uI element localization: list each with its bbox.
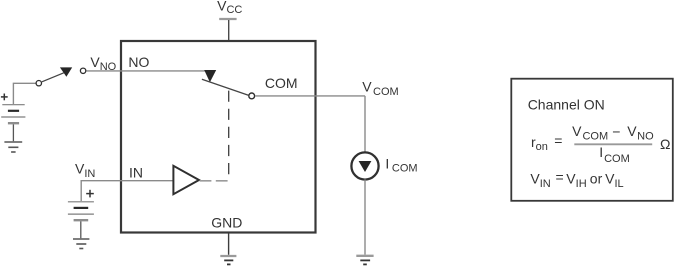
svg-text:or: or	[590, 171, 603, 187]
wire VIN net	[81, 181, 173, 201]
wire NO net	[87, 70, 206, 72]
svg-text:VIH: VIH	[566, 171, 586, 190]
ground (GND pin)	[220, 255, 236, 257]
battery B2 plus sign	[86, 190, 94, 198]
battery B2 plates	[68, 201, 94, 203]
switch S1 throw terminal	[80, 68, 85, 73]
internal switch arm	[202, 79, 249, 95]
wire VCC to box	[228, 20, 230, 40]
IC body box	[121, 41, 316, 233]
svg-text:Ω: Ω	[660, 136, 670, 152]
wire B2 to ground	[80, 221, 82, 238]
svg-text:GND: GND	[211, 215, 242, 231]
current source ICOM circle	[351, 152, 378, 179]
VCC supply bar	[219, 18, 236, 20]
svg-text:Channel ON: Channel ON	[528, 96, 605, 112]
svg-text:VNO: VNO	[627, 123, 654, 143]
wire current source to ground	[364, 179, 366, 254]
svg-text:VNO: VNO	[90, 54, 116, 73]
svg-text:IN: IN	[129, 165, 143, 181]
battery B1 plus sign	[1, 94, 8, 101]
switch S1 arm	[42, 73, 64, 82]
dashed control line horizontal	[200, 180, 229, 182]
svg-text:COM: COM	[265, 75, 298, 91]
svg-text:ICOM: ICOM	[599, 144, 629, 165]
buffer U1	[173, 166, 199, 194]
current source arrow	[359, 161, 372, 172]
wire B1 to ground	[12, 124, 14, 141]
svg-text:VIN: VIN	[75, 160, 95, 179]
svg-text:NO: NO	[128, 54, 149, 70]
ground (B1)	[4, 142, 22, 152]
svg-text:ron: ron	[531, 134, 548, 153]
internal switch arrowhead	[204, 70, 216, 82]
svg-text:VIL: VIL	[605, 171, 624, 190]
svg-text:VCOM: VCOM	[362, 78, 398, 98]
switch S1 arrowhead	[60, 67, 72, 76]
battery B1 plates	[2, 104, 24, 106]
svg-text:ICOM: ICOM	[385, 155, 417, 174]
wire COM net	[255, 95, 365, 97]
svg-text:=: =	[556, 169, 564, 185]
battery B1 wire to switch	[13, 83, 35, 104]
internal switch COM terminal	[249, 93, 255, 99]
ground (B2)	[73, 239, 89, 249]
ground (ICOM)	[356, 255, 373, 257]
svg-text:=: =	[554, 132, 562, 148]
switch S1 pole terminal	[36, 81, 41, 86]
svg-text:−: −	[612, 124, 620, 140]
equation fraction bar	[574, 143, 652, 145]
wire GND to ground	[228, 233, 230, 255]
wire VCOM down to current source	[364, 96, 366, 152]
annotation box	[511, 79, 673, 201]
svg-text:VIN: VIN	[530, 171, 550, 190]
dashed control line vertical	[228, 91, 230, 178]
svg-text:VCOM: VCOM	[572, 123, 608, 143]
svg-text:VCC: VCC	[217, 0, 242, 16]
